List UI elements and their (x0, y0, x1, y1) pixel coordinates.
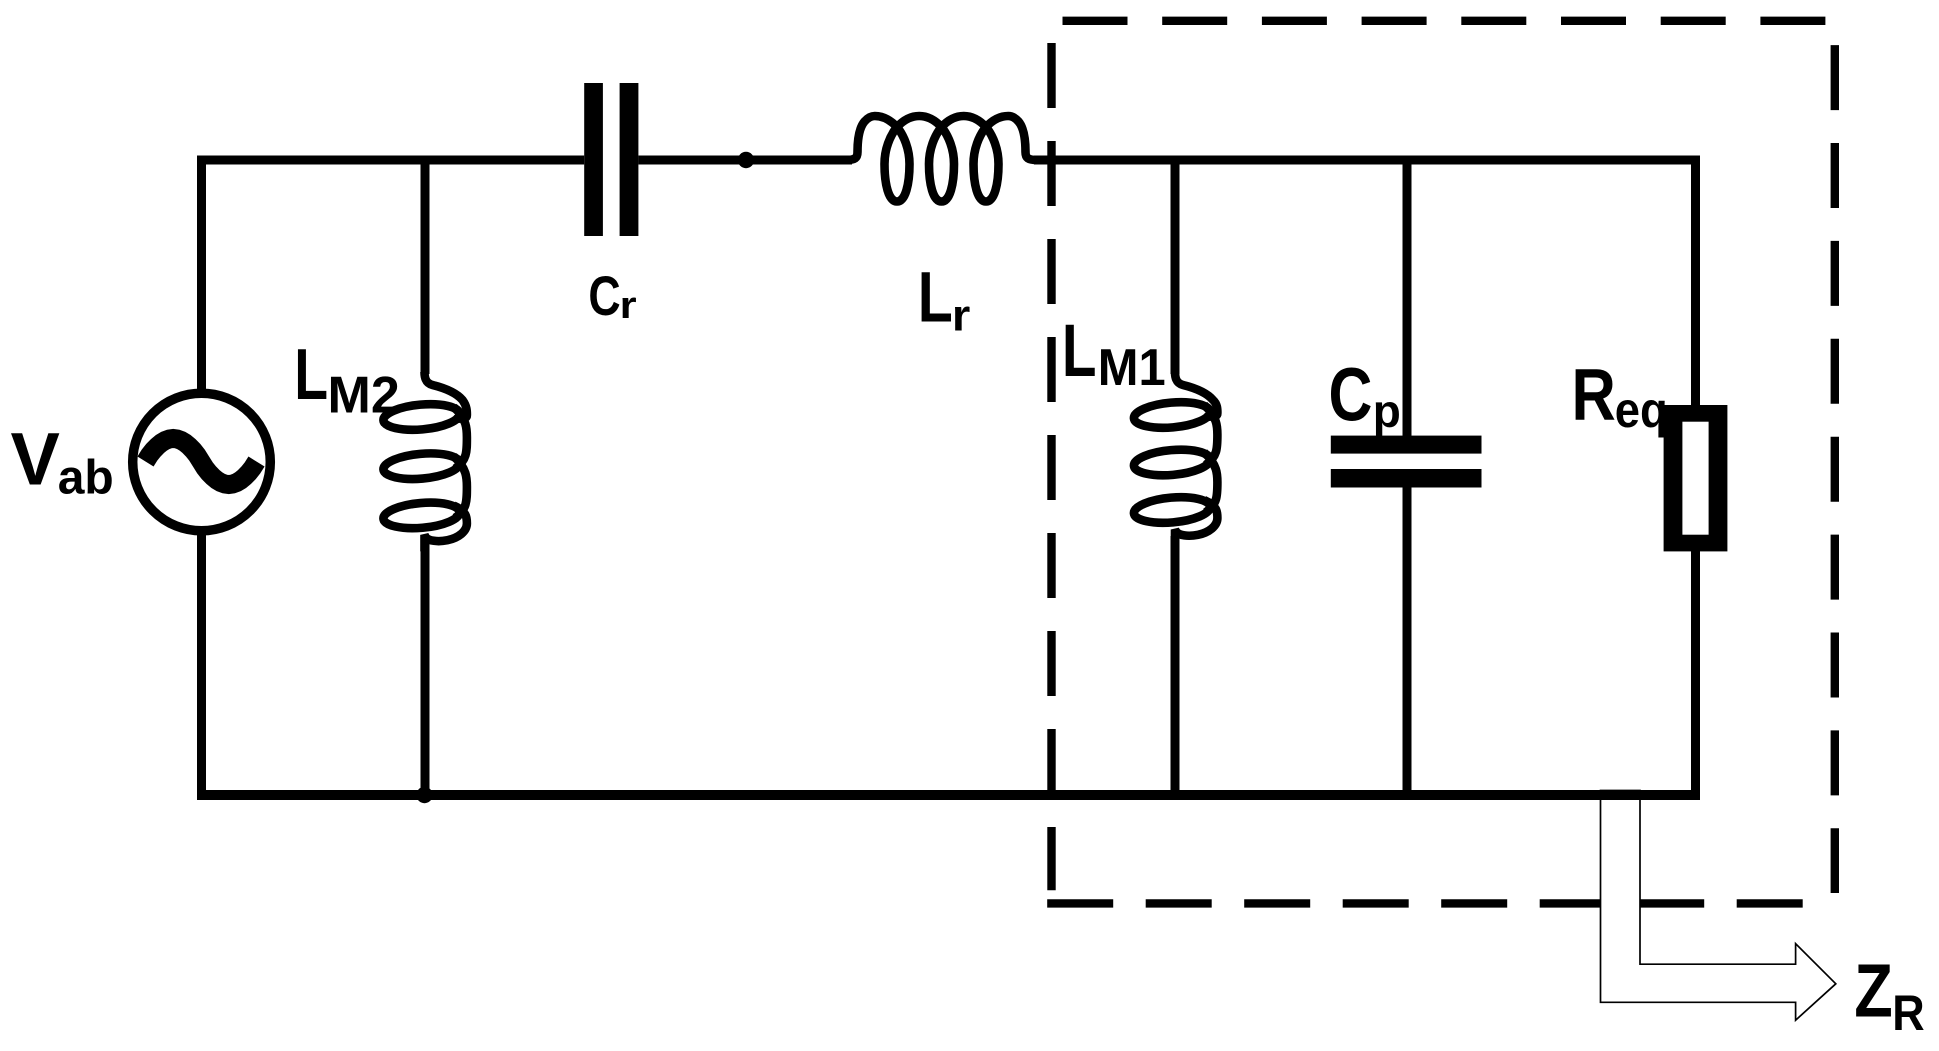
svg-text:M2: M2 (328, 367, 400, 425)
wire Req branch bottom (1691, 551, 1700, 796)
capacitor Cr right plate (620, 83, 639, 236)
svg-text:M1: M1 (1098, 338, 1166, 396)
wire top right segment and Req drop (1034, 160, 1696, 405)
wire LM2 branch top (421, 158, 430, 374)
wire top-left segment and left rail (202, 160, 585, 800)
svg-text:Z: Z (1854, 948, 1893, 1032)
svg-text:C: C (1329, 353, 1373, 437)
svg-text:L: L (1062, 309, 1097, 392)
wire Cp branch top (1403, 158, 1412, 440)
inductor LM2 coil (382, 372, 467, 551)
inductor Lr coil (846, 116, 1037, 202)
capacitor Cp bottom plate (1331, 469, 1482, 488)
junction dot on top wire (738, 152, 754, 168)
svg-text:r: r (620, 285, 637, 327)
dashed box left edge (1047, 43, 1055, 890)
impedance arrow ZR (hollow bent arrow) (1601, 791, 1836, 1021)
voltage source Vab circle (133, 393, 271, 531)
svg-text:p: p (1373, 385, 1401, 437)
svg-text:R: R (1892, 985, 1924, 1041)
wire LM2 branch bottom (421, 540, 430, 796)
dashed box top edge (1063, 17, 1826, 25)
capacitor Cr left plate (584, 83, 603, 236)
svg-text:R: R (1572, 355, 1616, 436)
svg-text:L: L (918, 259, 953, 338)
inductor LM1 coil (1133, 372, 1218, 546)
svg-text:C: C (588, 264, 620, 327)
svg-text:ab: ab (58, 452, 114, 505)
svg-text:V: V (11, 417, 60, 500)
wire bottom rail (197, 790, 1700, 800)
wire Cp branch bottom (1403, 483, 1412, 796)
junction dot on bottom wire at LM2 (416, 787, 432, 803)
capacitor Cp top plate (1331, 436, 1482, 454)
svg-text:L: L (294, 335, 328, 415)
wire LM1 branch bottom (1171, 536, 1180, 796)
svg-text:eq: eq (1615, 382, 1668, 438)
dashed box right edge (1831, 45, 1839, 893)
resistor Req body (1664, 405, 1728, 551)
dashed box bottom edge (1047, 899, 1810, 907)
svg-text:r: r (952, 292, 970, 341)
voltage source sine symbol (146, 439, 257, 485)
wire top middle segment (Cr to Lr) (638, 156, 852, 165)
wire LM1 branch top (1171, 158, 1180, 374)
